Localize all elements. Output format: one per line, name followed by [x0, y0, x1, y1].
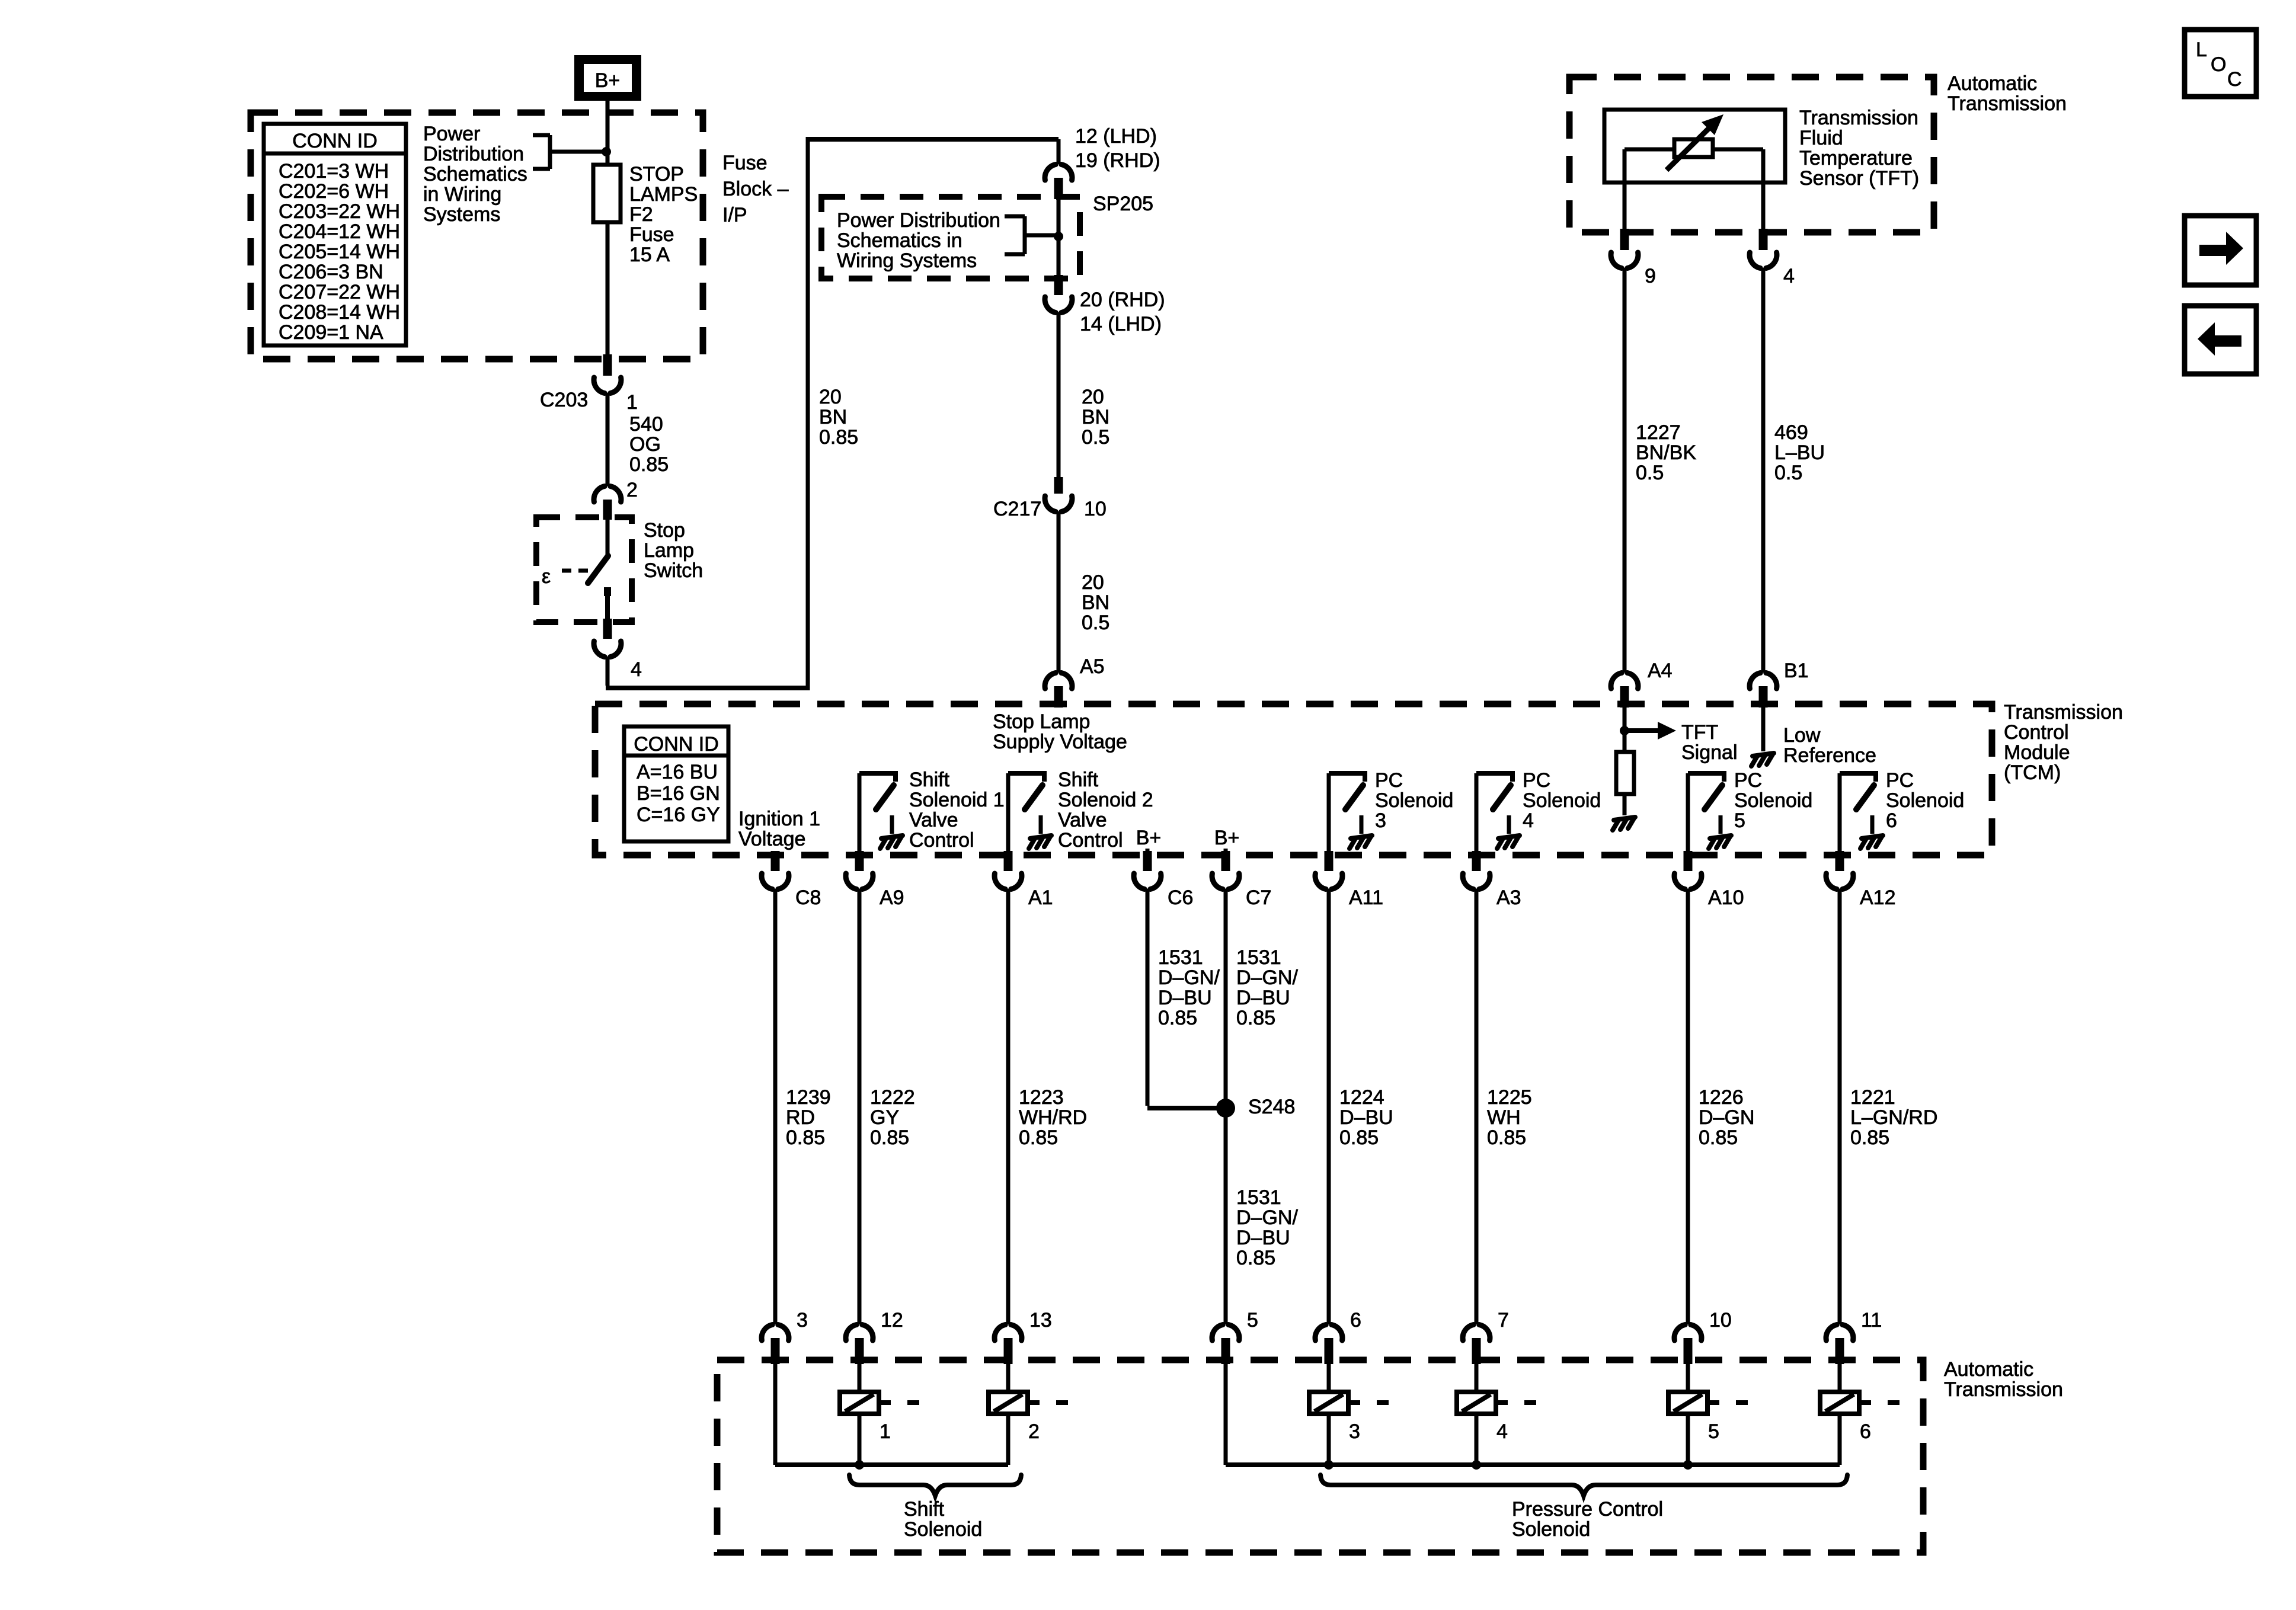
- resistor (TCM input): [1616, 752, 1634, 794]
- svg-text:CONN ID: CONN ID: [634, 733, 719, 756]
- svg-text:Module: Module: [2004, 741, 2070, 764]
- svg-text:BN: BN: [819, 406, 847, 428]
- node junction solenoid 5: [1683, 1460, 1693, 1470]
- svg-text:10: 10: [1709, 1309, 1732, 1331]
- svg-text:Valve: Valve: [1058, 809, 1107, 831]
- svg-text:3: 3: [1349, 1420, 1360, 1443]
- svg-text:LAMPS: LAMPS: [629, 183, 698, 206]
- wire B+ to fuse: [606, 101, 610, 165]
- brace shift solenoid: [849, 1475, 1021, 1496]
- power symbol B+: [574, 55, 641, 101]
- svg-text:10: 10: [1084, 498, 1107, 520]
- svg-text:20: 20: [819, 386, 842, 408]
- label Shift Solenoid 1 Valve Control: [909, 769, 1005, 852]
- svg-text:C202=6 WH: C202=6 WH: [279, 180, 389, 203]
- svg-text:0.5: 0.5: [1774, 462, 1802, 484]
- label B1: [1784, 660, 1809, 682]
- bracket link SP205: [1005, 216, 1056, 254]
- label 1226 D-GN 0.85: [1699, 1086, 1754, 1149]
- svg-text:Solenoid: Solenoid: [1523, 789, 1601, 812]
- wire 1223 WH/RD: [1006, 889, 1011, 1324]
- svg-text:5: 5: [1708, 1420, 1719, 1443]
- label A10: [1708, 886, 1744, 909]
- pin number 11: [1861, 1309, 1882, 1331]
- label Fuse Block - I/P: [722, 152, 789, 226]
- svg-text:in Wiring: in Wiring: [423, 183, 501, 206]
- svg-text:4: 4: [1783, 265, 1795, 287]
- svg-text:Lamp: Lamp: [644, 539, 694, 562]
- label C8: [795, 886, 821, 909]
- pin number 6: [1350, 1309, 1361, 1331]
- connector into SP205: [1045, 165, 1072, 200]
- svg-text:469: 469: [1774, 421, 1808, 444]
- label 1531 D-GN/D-BU 0.85 (below S248): [1236, 1186, 1298, 1269]
- wire C217 to A5: [1057, 511, 1061, 673]
- label A4: [1648, 660, 1673, 682]
- label SP205: [1093, 193, 1153, 215]
- connector pin 7 (transmission): [1463, 1325, 1490, 1365]
- connector pin 6 (transmission): [1315, 1325, 1342, 1365]
- label 20 BN 0.5 lower: [1082, 571, 1109, 634]
- connector pin A11: [1315, 851, 1342, 889]
- pin number 9: [1645, 265, 1656, 287]
- svg-text:1: 1: [626, 391, 638, 414]
- pin number 12: [881, 1309, 903, 1331]
- arrow box left: [2185, 306, 2256, 374]
- svg-text:1: 1: [880, 1420, 891, 1443]
- label 20 (RHD) 14 (LHD): [1080, 289, 1165, 335]
- svg-text:PC: PC: [1734, 769, 1762, 792]
- svg-text:6: 6: [1860, 1420, 1871, 1443]
- connector C203 pin 1: [594, 354, 621, 393]
- svg-text:20: 20: [1082, 571, 1104, 594]
- node splice S248: [1216, 1099, 1235, 1118]
- driver PC Solenoid 3: [1329, 771, 1372, 853]
- label Stop Lamp Supply Voltage: [993, 710, 1127, 753]
- svg-text:D–GN/: D–GN/: [1236, 1206, 1298, 1229]
- connector pin C6: [1134, 851, 1161, 889]
- wire pressure control bus: [1226, 1364, 1840, 1465]
- svg-text:1225: 1225: [1487, 1086, 1532, 1109]
- connector C217: [1045, 477, 1072, 512]
- svg-text:Solenoid: Solenoid: [904, 1518, 982, 1541]
- solenoid number 4: [1496, 1420, 1508, 1443]
- label 1222 GY 0.85: [870, 1086, 915, 1149]
- connector pin C7: [1212, 851, 1239, 889]
- svg-text:Pressure Control: Pressure Control: [1512, 1498, 1663, 1521]
- connector C203 pin 2: [594, 486, 621, 520]
- svg-text:BN: BN: [1082, 591, 1109, 614]
- connector pin A4 into TCM: [1611, 673, 1638, 708]
- svg-text:L–BU: L–BU: [1774, 441, 1825, 464]
- svg-text:Sensor (TFT): Sensor (TFT): [1799, 167, 1919, 190]
- wire 1222 GY: [858, 889, 862, 1324]
- label Low Reference: [1783, 724, 1876, 767]
- svg-text:A5: A5: [1080, 655, 1105, 678]
- wire 469 L-BU: [1761, 268, 1766, 673]
- stop lamp switch contacts: [588, 518, 608, 621]
- svg-text:Power: Power: [423, 123, 480, 145]
- svg-text:4: 4: [631, 658, 642, 681]
- pin number 4: [631, 658, 642, 681]
- svg-text:1221: 1221: [1850, 1086, 1895, 1109]
- svg-text:A1: A1: [1028, 886, 1053, 909]
- connector pin 10 (transmission): [1674, 1325, 1702, 1365]
- label 540 OG 0.85: [629, 413, 669, 476]
- connector pin 11 (transmission): [1826, 1325, 1853, 1365]
- wire 1225 WH: [1475, 889, 1479, 1324]
- driver PC Solenoid 5: [1688, 771, 1731, 853]
- label PC Solenoid 6: [1886, 769, 1964, 832]
- svg-text:C207=22 WH: C207=22 WH: [279, 281, 400, 303]
- label A1: [1028, 886, 1053, 909]
- TCM dashed box: [595, 704, 1992, 855]
- svg-text:C203: C203: [540, 389, 588, 411]
- wire 1531 from C7: [1224, 889, 1228, 1324]
- connector pin 13 (transmission): [994, 1325, 1022, 1365]
- svg-text:3: 3: [797, 1309, 808, 1331]
- label TFT Signal: [1681, 721, 1738, 764]
- svg-text:C203=22 WH: C203=22 WH: [279, 200, 400, 223]
- svg-text:1531: 1531: [1236, 1186, 1281, 1209]
- svg-text:C217: C217: [993, 498, 1041, 520]
- wire switch output to riser: [606, 657, 808, 688]
- automatic transmission dashed box (bottom): [717, 1360, 1923, 1553]
- svg-text:C6: C6: [1168, 886, 1193, 909]
- label PC Solenoid 5: [1734, 769, 1812, 832]
- svg-text:D–GN/: D–GN/: [1236, 966, 1298, 989]
- label A3: [1496, 886, 1521, 909]
- svg-text:7: 7: [1498, 1309, 1509, 1331]
- solenoid number 1: [880, 1420, 891, 1443]
- driver Shift Solenoid 2 Valve Control: [1008, 771, 1051, 853]
- connector pin A3: [1463, 851, 1490, 889]
- svg-text:Transmission: Transmission: [1948, 92, 2067, 115]
- svg-text:Shift: Shift: [1058, 769, 1099, 791]
- svg-text:Control: Control: [2004, 721, 2069, 744]
- svg-text:1239: 1239: [786, 1086, 831, 1109]
- label Transmission Fluid Temperature Sensor (TFT): [1799, 107, 1919, 190]
- svg-text:STOP: STOP: [629, 163, 684, 185]
- svg-text:Transmission: Transmission: [2004, 701, 2123, 724]
- label 1223 WH/RD 0.85: [1019, 1086, 1087, 1149]
- svg-text:ε: ε: [542, 565, 551, 588]
- svg-text:Schematics: Schematics: [423, 163, 527, 185]
- label A5: [1080, 655, 1105, 678]
- switch actuator symbol: [542, 565, 588, 588]
- svg-text:O: O: [2211, 53, 2226, 76]
- ground below resistor: [1613, 794, 1635, 830]
- label 12 (LHD) 19 (RHD): [1075, 125, 1160, 172]
- svg-text:C8: C8: [795, 886, 821, 909]
- svg-text:2: 2: [626, 479, 638, 501]
- pin number 2: [626, 479, 638, 501]
- svg-text:20 (RHD): 20 (RHD): [1080, 289, 1165, 311]
- svg-text:0.85: 0.85: [1236, 1007, 1275, 1029]
- label Power Distribution Schematics (fuse block): [423, 123, 527, 226]
- svg-text:Automatic: Automatic: [1944, 1358, 2033, 1381]
- svg-text:0.85: 0.85: [629, 453, 669, 476]
- svg-text:0.85: 0.85: [1019, 1126, 1058, 1149]
- svg-text:RD: RD: [786, 1106, 815, 1129]
- svg-text:6: 6: [1886, 809, 1897, 832]
- svg-text:D–BU: D–BU: [1236, 1227, 1290, 1249]
- svg-text:(TCM): (TCM): [2004, 761, 2061, 784]
- svg-text:C204=12 WH: C204=12 WH: [279, 220, 400, 243]
- label 469 L-BU 0.5: [1774, 421, 1825, 484]
- label 1531 D-GN/D-BU 0.85 (C7): [1236, 946, 1298, 1029]
- svg-text:Valve: Valve: [909, 809, 958, 831]
- label Pressure Control Solenoid: [1512, 1498, 1663, 1541]
- automatic transmission dashed box (TFT): [1569, 77, 1934, 232]
- solenoid number 5: [1708, 1420, 1719, 1443]
- connector pin 5 (transmission): [1212, 1325, 1239, 1365]
- svg-text:1531: 1531: [1158, 946, 1203, 969]
- svg-text:0.5: 0.5: [1082, 612, 1109, 634]
- CONN ID table (TCM): [624, 726, 728, 841]
- label Transmission Control Module (TCM): [2004, 701, 2123, 784]
- svg-text:B1: B1: [1784, 660, 1809, 682]
- svg-text:Stop: Stop: [644, 519, 685, 542]
- svg-text:D–BU: D–BU: [1339, 1106, 1393, 1129]
- node junction solenoid 1: [855, 1460, 864, 1470]
- wire shift solenoid bus: [775, 1364, 1008, 1465]
- svg-text:B=16 GN: B=16 GN: [637, 782, 720, 805]
- svg-text:Schematics in: Schematics in: [837, 229, 962, 252]
- svg-text:540: 540: [629, 413, 663, 436]
- fuse block dashed box: [251, 113, 703, 359]
- svg-text:Fuse: Fuse: [629, 223, 674, 246]
- svg-text:D–BU: D–BU: [1158, 987, 1212, 1009]
- svg-text:15 A: 15 A: [629, 244, 670, 266]
- svg-text:A4: A4: [1648, 660, 1673, 682]
- label 1239 RD 0.85: [786, 1086, 831, 1149]
- wire riser to SP205: [808, 137, 1059, 690]
- svg-text:Block –: Block –: [722, 178, 789, 200]
- label Shift Solenoid: [904, 1498, 982, 1541]
- pin number 7: [1498, 1309, 1509, 1331]
- label A9: [880, 886, 904, 909]
- svg-text:Solenoid 2: Solenoid 2: [1058, 789, 1153, 811]
- pin number 3: [797, 1309, 808, 1331]
- connector pin B1 into TCM: [1750, 673, 1777, 708]
- splice SP205 dashed box: [821, 197, 1080, 279]
- svg-text:C209=1 NA: C209=1 NA: [279, 321, 383, 344]
- node junction SP205: [1054, 232, 1063, 241]
- label Stop Lamp Switch: [644, 519, 703, 582]
- node junction solenoid 3: [1324, 1460, 1334, 1470]
- connector pin 3 (transmission): [762, 1325, 789, 1365]
- svg-text:GY: GY: [870, 1106, 899, 1129]
- label S248: [1248, 1096, 1295, 1118]
- svg-text:C206=3 BN: C206=3 BN: [279, 261, 383, 283]
- svg-text:B+: B+: [1136, 827, 1162, 849]
- pin number 5: [1247, 1309, 1258, 1331]
- connector pin A9: [846, 851, 873, 889]
- svg-text:C205=14 WH: C205=14 WH: [279, 241, 400, 263]
- svg-text:Power Distribution: Power Distribution: [837, 209, 1000, 232]
- label 1224 D-BU 0.85: [1339, 1086, 1393, 1149]
- svg-text:A9: A9: [880, 886, 904, 909]
- pin number 10: [1709, 1309, 1732, 1331]
- svg-text:A11: A11: [1349, 886, 1383, 909]
- pin number 13: [1029, 1309, 1052, 1331]
- svg-text:14 (LHD): 14 (LHD): [1080, 313, 1162, 335]
- svg-text:Shift: Shift: [904, 1498, 945, 1521]
- svg-text:PC: PC: [1523, 769, 1550, 792]
- svg-text:0.5: 0.5: [1636, 462, 1664, 484]
- svg-text:Transmission: Transmission: [1944, 1378, 2063, 1401]
- svg-text:1226: 1226: [1699, 1086, 1744, 1109]
- label 1531 D-GN/D-BU 0.85 (C6): [1158, 946, 1220, 1029]
- svg-text:11: 11: [1861, 1309, 1882, 1331]
- svg-text:CONN ID: CONN ID: [292, 130, 378, 152]
- svg-text:TFT: TFT: [1681, 721, 1718, 744]
- fuse F2 STOP LAMPS 15A: [593, 165, 621, 222]
- svg-text:D–GN/: D–GN/: [1158, 966, 1220, 989]
- svg-text:Fuse: Fuse: [722, 152, 768, 174]
- label B+ at C7: [1214, 827, 1240, 855]
- label Power Distribution Schematics in Wiring Systems: [837, 209, 1000, 272]
- svg-text:Signal: Signal: [1681, 741, 1738, 764]
- svg-text:19 (RHD): 19 (RHD): [1075, 149, 1160, 172]
- svg-text:L–GN/RD: L–GN/RD: [1850, 1106, 1937, 1129]
- svg-text:WH/RD: WH/RD: [1019, 1106, 1087, 1129]
- svg-text:Automatic: Automatic: [1948, 72, 2037, 95]
- pin number 10: [1084, 498, 1107, 520]
- svg-text:I/P: I/P: [722, 204, 747, 226]
- connector pin 4 below switch: [594, 619, 621, 657]
- svg-text:Solenoid: Solenoid: [1375, 789, 1453, 812]
- svg-text:F2: F2: [629, 203, 653, 226]
- shift solenoid 2: [989, 1364, 1068, 1465]
- svg-text:PC: PC: [1886, 769, 1914, 792]
- LOC reference box: [2185, 30, 2256, 97]
- label 20 BN 0.85: [819, 386, 858, 449]
- arrow box right: [2185, 216, 2256, 285]
- TFT sensor internal wires: [1625, 149, 1763, 230]
- svg-text:0.85: 0.85: [1850, 1126, 1889, 1149]
- svg-text:C208=14 WH: C208=14 WH: [279, 301, 400, 324]
- solenoid number 2: [1028, 1420, 1040, 1443]
- Low Reference ground: [1751, 708, 1774, 766]
- svg-text:Temperature: Temperature: [1799, 147, 1913, 169]
- wire 1224 D-BU: [1327, 889, 1331, 1324]
- svg-text:Distribution: Distribution: [423, 143, 524, 165]
- pressure control solenoid 4: [1457, 1364, 1536, 1465]
- label STOP LAMPS F2 Fuse 15 A: [629, 163, 698, 266]
- svg-text:Ignition 1: Ignition 1: [738, 808, 820, 830]
- stop lamp switch dashed box: [536, 517, 632, 622]
- connector pin 9: [1611, 229, 1638, 268]
- svg-text:2: 2: [1028, 1420, 1040, 1443]
- svg-text:C7: C7: [1246, 886, 1271, 909]
- label A12: [1860, 886, 1896, 909]
- connector out of SP205: [1045, 275, 1072, 313]
- svg-text:5: 5: [1734, 809, 1745, 832]
- svg-text:D–GN: D–GN: [1699, 1106, 1754, 1129]
- solenoid number 3: [1349, 1420, 1360, 1443]
- pressure control solenoid 6: [1820, 1364, 1900, 1465]
- label 1227 BN/BK 0.5: [1636, 421, 1696, 484]
- svg-text:9: 9: [1645, 265, 1656, 287]
- svg-text:A3: A3: [1496, 886, 1521, 909]
- svg-text:0.5: 0.5: [1082, 426, 1109, 449]
- connector pin A12: [1826, 851, 1853, 889]
- connector pin 4 (TFT): [1750, 229, 1777, 268]
- wire 1226 D-GN: [1686, 889, 1690, 1324]
- label 20 BN 0.5 upper: [1082, 386, 1109, 449]
- driver PC Solenoid 4: [1476, 771, 1520, 853]
- svg-text:Solenoid: Solenoid: [1512, 1518, 1590, 1541]
- svg-text:Control: Control: [1058, 829, 1123, 852]
- pressure control solenoid 3: [1309, 1364, 1389, 1465]
- node junction at fuse feed: [602, 147, 611, 156]
- svg-text:1222: 1222: [870, 1086, 915, 1109]
- label PC Solenoid 4: [1523, 769, 1601, 832]
- label Shift Solenoid 2 Valve Control: [1058, 769, 1153, 852]
- driver PC Solenoid 6: [1840, 771, 1883, 853]
- svg-text:Systems: Systems: [423, 203, 500, 226]
- label Automatic Transmission (top): [1948, 72, 2067, 115]
- svg-text:Fluid: Fluid: [1799, 127, 1843, 149]
- label C203: [540, 389, 588, 411]
- label A11: [1349, 886, 1383, 909]
- svg-text:3: 3: [1375, 809, 1386, 832]
- svg-text:20: 20: [1082, 386, 1104, 408]
- wire SP205 to C217: [1057, 312, 1061, 477]
- svg-text:A12: A12: [1860, 886, 1896, 909]
- svg-text:D–BU: D–BU: [1236, 987, 1290, 1009]
- svg-text:0.85: 0.85: [1487, 1126, 1526, 1149]
- svg-text:Solenoid: Solenoid: [1886, 789, 1964, 812]
- svg-text:0.85: 0.85: [1236, 1247, 1275, 1269]
- svg-text:Solenoid: Solenoid: [1734, 789, 1812, 812]
- svg-text:WH: WH: [1487, 1106, 1521, 1129]
- solenoid number 6: [1860, 1420, 1871, 1443]
- wire 1531 from C6: [1147, 889, 1221, 1108]
- svg-text:12: 12: [881, 1309, 903, 1331]
- label C7: [1246, 886, 1271, 909]
- svg-text:A=16 BU: A=16 BU: [637, 761, 718, 783]
- label 1221 L-GN/RD 0.85: [1850, 1086, 1937, 1149]
- svg-text:0.85: 0.85: [1339, 1126, 1379, 1149]
- wire 1227 BN/BK: [1623, 268, 1627, 673]
- svg-text:C201=3 WH: C201=3 WH: [279, 160, 389, 183]
- driver Shift Solenoid 1 Valve Control: [859, 771, 903, 853]
- svg-text:0.85: 0.85: [819, 426, 858, 449]
- svg-text:PC: PC: [1375, 769, 1403, 792]
- connector pin A5 into TCM: [1045, 673, 1072, 708]
- svg-text:4: 4: [1523, 809, 1534, 832]
- svg-text:C=16 GY: C=16 GY: [637, 804, 720, 826]
- shift solenoid 1: [840, 1364, 919, 1465]
- svg-text:Reference: Reference: [1783, 744, 1876, 767]
- label C6: [1168, 886, 1193, 909]
- CONN ID table (fuse block): [264, 124, 406, 345]
- svg-text:Voltage: Voltage: [738, 828, 805, 850]
- svg-text:1227: 1227: [1636, 421, 1681, 444]
- wire 1221 L-GN/RD: [1838, 889, 1842, 1324]
- svg-text:C: C: [2227, 68, 2242, 91]
- label Automatic Transmission (bottom): [1944, 1358, 2063, 1401]
- svg-text:1224: 1224: [1339, 1086, 1384, 1109]
- svg-text:1531: 1531: [1236, 946, 1281, 969]
- pin number 1: [626, 391, 638, 414]
- pin number 4 (TFT): [1783, 265, 1795, 287]
- svg-text:B+: B+: [595, 69, 621, 92]
- svg-text:Supply Voltage: Supply Voltage: [993, 731, 1127, 753]
